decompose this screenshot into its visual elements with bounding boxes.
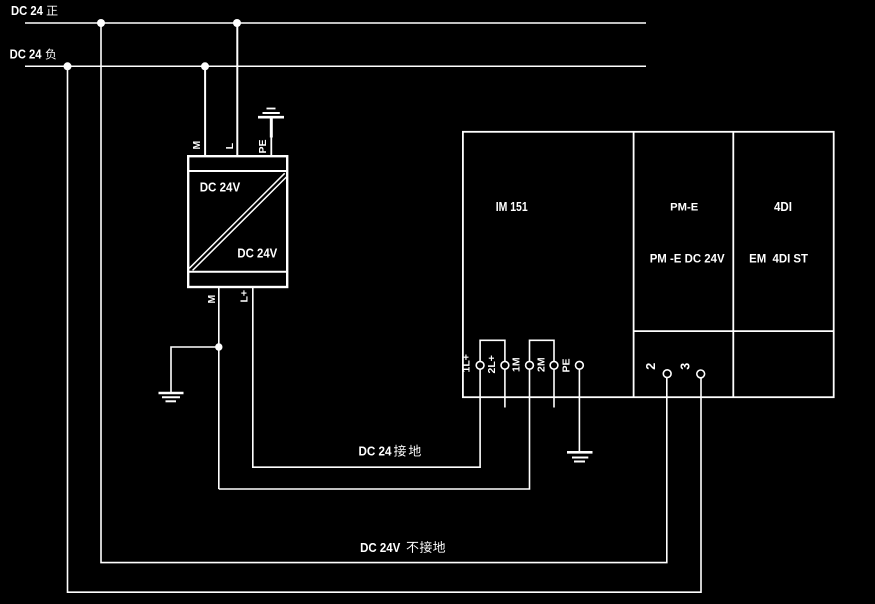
svg-text:DC 24V: DC 24V xyxy=(200,180,241,194)
module block outline xyxy=(463,132,834,397)
terminal circle 2M xyxy=(550,361,558,369)
terminal circle 1L+ xyxy=(476,361,484,369)
junction dot bus+ L wire xyxy=(233,19,241,27)
svg-text:PE: PE xyxy=(257,139,269,153)
wire M from bus- to PSU top xyxy=(204,66,206,156)
svg-text:EM 4DI ST: EM 4DI ST xyxy=(749,251,809,265)
svg-text:4DI: 4DI xyxy=(774,200,792,214)
svg-text:DC 24: DC 24 xyxy=(11,4,43,18)
svg-text:DC 24: DC 24 xyxy=(359,445,392,459)
svg-text:PM -E DC 24V: PM -E DC 24V xyxy=(650,251,725,265)
text glyph 接 (jie-bot) xyxy=(420,541,432,553)
power supply diagonal line 2 xyxy=(193,177,287,270)
svg-text:2L+: 2L+ xyxy=(486,355,498,373)
wire from bus+ down-left around to terminal 2 xyxy=(101,23,667,563)
svg-text:DC 24V: DC 24V xyxy=(237,246,277,260)
power supply box xyxy=(188,156,287,287)
terminal circle 3 xyxy=(697,370,705,378)
wire stub below 2L+ xyxy=(504,369,506,407)
ground symbol left (under M junction) xyxy=(159,393,184,401)
power supply diagonal line 1 xyxy=(189,173,284,268)
module divider IM151 / PM-E xyxy=(633,131,635,398)
wire bridge 1M to 2M xyxy=(530,340,555,361)
svg-text:1L+: 1L+ xyxy=(460,354,472,372)
wire L from bus+ to PSU top xyxy=(236,23,238,156)
wire stub below 2M xyxy=(553,369,555,407)
wire bridge 1L+ to 2L+ xyxy=(480,340,505,361)
text glyph 接 (jie-mid) xyxy=(394,445,406,457)
junction dot bus+ left drop xyxy=(97,19,105,27)
svg-text:M: M xyxy=(191,141,203,150)
junction dot bus- left drop xyxy=(64,62,72,70)
text glyph 地 (di-bot) xyxy=(433,541,445,553)
svg-text:3: 3 xyxy=(678,363,692,370)
text glyph 地 (di-mid) xyxy=(409,445,421,457)
wire M run to terminal 1M xyxy=(219,369,530,489)
text glyph 不 (bu-bot) xyxy=(407,542,419,553)
module divider PM-E / 4DI xyxy=(732,131,734,398)
svg-text:PM-E: PM-E xyxy=(670,202,698,214)
svg-text:1M: 1M xyxy=(511,357,523,372)
terminal circle PE xyxy=(576,361,584,369)
power supply bottom strip divider xyxy=(187,271,287,273)
svg-text:2M: 2M xyxy=(536,357,548,372)
ground symbol above PE (bars over stem) xyxy=(258,109,284,138)
junction dot M-to-ground xyxy=(215,343,222,350)
wire bus DC24 positive xyxy=(25,22,646,24)
svg-text:IM 151: IM 151 xyxy=(496,200,528,214)
wire PE stem to PSU top xyxy=(270,137,272,156)
svg-text:2: 2 xyxy=(644,363,658,370)
svg-text:L: L xyxy=(224,142,236,149)
terminal circle 1M xyxy=(526,361,534,369)
wire L+ from PSU bottom to terminal 1L+ xyxy=(253,288,480,468)
wire from bus- down-left around to terminal 3 xyxy=(68,66,702,592)
wire PE terminal to ground xyxy=(578,369,580,451)
terminal circle 2L+ xyxy=(501,361,509,369)
svg-text:PE: PE xyxy=(561,358,573,372)
text glyph 正 (zheng-bus) xyxy=(47,6,58,16)
terminal circle 2 xyxy=(663,370,671,378)
power supply top strip divider xyxy=(187,170,287,172)
ground symbol under PE terminal xyxy=(567,452,593,461)
wire branch to left ground xyxy=(171,347,219,392)
module horizontal divider terminal row xyxy=(634,330,834,332)
svg-text:L+: L+ xyxy=(239,290,251,303)
svg-text:DC 24V: DC 24V xyxy=(360,541,401,555)
junction dot bus- M wire xyxy=(201,62,209,70)
text glyph 负 (fu-bus) xyxy=(46,49,56,60)
wire bus DC24 negative xyxy=(25,65,646,67)
wire M from PSU bottom down xyxy=(218,288,220,490)
svg-text:DC 24: DC 24 xyxy=(10,47,42,61)
svg-text:M: M xyxy=(206,295,218,304)
